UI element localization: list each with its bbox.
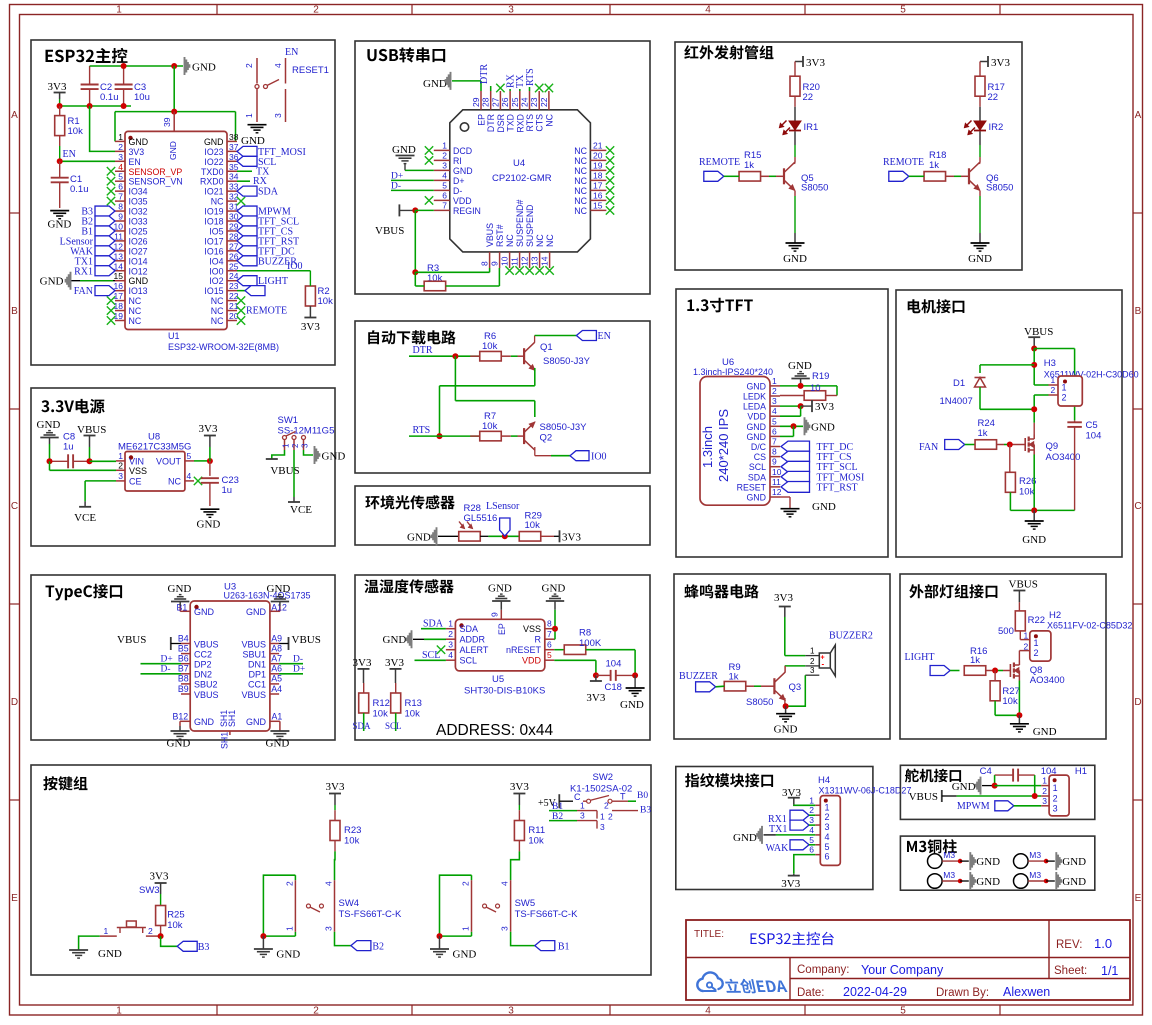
ic U5 SHT30	[455, 619, 545, 696]
svg-text:IR1: IR1	[804, 122, 819, 133]
svg-text:SW1: SW1	[278, 415, 299, 426]
resistor R23	[330, 810, 361, 875]
svg-text:VBUS: VBUS	[77, 424, 106, 436]
svg-text:2: 2	[810, 657, 815, 666]
svg-text:NC: NC	[574, 186, 587, 196]
svg-text:GND: GND	[98, 948, 122, 960]
svg-text:A: A	[11, 110, 18, 121]
svg-text:BUZZER: BUZZER	[679, 671, 718, 682]
net label DTR top	[479, 64, 491, 91]
power flag VBUS U3 right	[279, 634, 321, 650]
resistor R18	[924, 150, 969, 181]
svg-text:1: 1	[284, 926, 294, 931]
svg-text:VCE: VCE	[74, 512, 96, 524]
net flag LSensor	[486, 501, 520, 536]
svg-text:AO3400: AO3400	[1030, 675, 1065, 686]
svg-text:1/1: 1/1	[1101, 964, 1118, 978]
power flag 3V3 H4 top	[782, 787, 815, 805]
svg-text:SCL: SCL	[749, 462, 766, 472]
svg-text:VDD: VDD	[747, 412, 766, 422]
net label D+ left	[391, 172, 434, 182]
ground SW3	[69, 936, 122, 960]
power flag VBUS servo	[909, 790, 957, 803]
mounting hole M3 1	[928, 850, 1001, 870]
net flag TX1 pin13	[75, 256, 115, 267]
svg-text:10k: 10k	[167, 920, 183, 931]
gnd flag servo	[952, 777, 995, 795]
wire vbus node motor	[980, 346, 1075, 421]
svg-text:GND: GND	[40, 276, 64, 288]
capacitor C23	[201, 475, 239, 506]
svg-text:ME6217C33M5G: ME6217C33M5G	[118, 442, 191, 453]
svg-text:6: 6	[118, 182, 123, 192]
ground U3 top right	[267, 583, 291, 606]
section box M3铜柱	[900, 836, 1094, 890]
switch SW5	[440, 875, 579, 936]
title block texts	[694, 929, 1118, 999]
svg-text:240*240 IPS: 240*240 IPS	[716, 409, 731, 482]
svg-text:3V3: 3V3	[326, 781, 345, 793]
section box ESP32主控	[31, 40, 335, 365]
wire top gnd rail	[90, 63, 183, 69]
svg-text:IO18: IO18	[204, 217, 223, 227]
svg-text:10: 10	[772, 467, 782, 477]
net flag BUZZER	[679, 671, 724, 692]
resistor R9	[724, 662, 774, 691]
svg-text:1: 1	[1034, 638, 1039, 648]
net flag MPWM	[957, 801, 1041, 812]
svg-text:SDA: SDA	[460, 624, 479, 634]
resistor R13 pullup	[385, 657, 422, 731]
svg-text:104: 104	[1086, 431, 1102, 442]
section box 温湿度传感器	[355, 575, 650, 740]
svg-text:A1: A1	[272, 712, 283, 722]
svg-text:DCD: DCD	[453, 146, 472, 156]
svg-text:R11: R11	[528, 825, 545, 836]
svg-text:NC: NC	[574, 146, 587, 156]
svg-text:3: 3	[448, 640, 453, 650]
section box 3.3V电源	[31, 388, 335, 546]
ic U1 ESP32-WROOM-32E	[125, 131, 279, 352]
svg-text:23: 23	[229, 281, 239, 291]
net label TX top	[515, 74, 526, 91]
svg-text:1.3inch-IPS240*240: 1.3inch-IPS240*240	[693, 367, 773, 377]
switch SW1	[278, 415, 335, 450]
svg-text:GND: GND	[488, 583, 512, 595]
svg-text:SENSOR_VP: SENSOR_VP	[129, 167, 183, 177]
wire IO0 pin25	[237, 261, 310, 272]
section box 按键组	[31, 765, 651, 975]
svg-text:1: 1	[282, 443, 291, 448]
section box USB转串口	[355, 41, 650, 294]
section title 蜂鸣器电路	[684, 584, 758, 598]
power flag 3V3 U5	[586, 681, 605, 704]
svg-text:ADDRESS: 0x44: ADDRESS: 0x44	[436, 722, 554, 739]
svg-text:10k: 10k	[344, 836, 360, 847]
svg-text:NC: NC	[574, 196, 587, 206]
svg-text:B3: B3	[640, 806, 651, 816]
ground Q5	[783, 243, 807, 265]
svg-text:GND: GND	[246, 717, 267, 727]
svg-text:5: 5	[547, 650, 552, 660]
svg-text:D: D	[11, 697, 18, 708]
svg-text:22: 22	[539, 97, 549, 107]
power flag 3V3 IR1	[795, 56, 825, 69]
resistor R11	[511, 810, 546, 875]
svg-text:29: 29	[471, 97, 481, 107]
svg-text:D-: D-	[161, 664, 171, 674]
svg-text:Q1: Q1	[540, 342, 553, 353]
svg-text:2: 2	[1062, 393, 1067, 403]
power flag VBUS SW1	[266, 450, 300, 477]
ground U4 gnd pin3	[392, 144, 434, 170]
svg-text:ADDR: ADDR	[460, 635, 486, 645]
svg-text:22: 22	[988, 92, 999, 103]
svg-text:A: A	[1135, 110, 1142, 121]
svg-text:S8050: S8050	[746, 697, 773, 708]
wire VBUS to REGIN	[412, 207, 489, 275]
svg-text:SDA: SDA	[748, 472, 766, 482]
svg-text:BUZZER2: BUZZER2	[829, 631, 873, 642]
ground U3 bottom right	[266, 731, 290, 750]
svg-text:3V3: 3V3	[510, 781, 529, 793]
resistor R8	[554, 628, 635, 676]
svg-text:C: C	[11, 501, 18, 512]
svg-text:EP: EP	[497, 623, 507, 635]
svg-text:2: 2	[1042, 786, 1047, 796]
U4 top pins 22-29	[471, 91, 554, 133]
no-connect pin27	[496, 84, 504, 92]
svg-text:IO32: IO32	[129, 207, 148, 217]
power flag 3V3 U6	[812, 400, 834, 413]
svg-text:IO21: IO21	[204, 187, 223, 197]
mosfet Q8 AO3400	[1010, 651, 1064, 686]
svg-text:1u: 1u	[222, 485, 233, 496]
svg-text:D/C: D/C	[751, 442, 767, 452]
svg-text:2: 2	[313, 5, 319, 16]
ground Q6	[968, 243, 992, 265]
svg-text:S8050-J3Y: S8050-J3Y	[543, 356, 591, 367]
svg-text:26: 26	[500, 97, 510, 107]
svg-text:NC: NC	[211, 197, 224, 207]
svg-text:VBUS: VBUS	[1009, 579, 1038, 591]
svg-text:1N4007: 1N4007	[940, 396, 973, 407]
svg-text:1: 1	[461, 926, 471, 931]
resistor R24	[975, 418, 1025, 449]
svg-text:GND: GND	[197, 519, 221, 531]
svg-text:SHT30-DIS-B10KS: SHT30-DIS-B10KS	[464, 686, 545, 697]
capacitor C5	[1034, 420, 1101, 510]
svg-text:7: 7	[442, 200, 447, 210]
svg-text:C18: C18	[605, 682, 622, 693]
svg-text:Date:: Date:	[797, 987, 825, 999]
wire VOUT 3V3	[194, 458, 213, 476]
svg-text:SDA: SDA	[353, 721, 372, 731]
wire vin rail	[47, 458, 117, 470]
svg-text:TXD: TXD	[506, 114, 516, 132]
net flag FAN	[919, 440, 975, 454]
svg-text:IO35: IO35	[129, 197, 148, 207]
svg-text:15: 15	[593, 200, 603, 210]
svg-text:13: 13	[114, 251, 124, 261]
svg-text:NC: NC	[535, 234, 545, 247]
svg-text:GND: GND	[204, 137, 224, 147]
U3 pin A12	[246, 603, 287, 617]
resistor R22	[998, 602, 1045, 639]
svg-text:4: 4	[809, 825, 814, 835]
wire 3v3 rail	[57, 103, 131, 109]
svg-text:ALERT: ALERT	[460, 645, 489, 655]
svg-text:GND: GND	[733, 832, 757, 844]
svg-text:1: 1	[810, 647, 815, 656]
svg-text:SBU1: SBU1	[242, 649, 266, 659]
power flag VBUS motor	[1024, 326, 1053, 349]
svg-text:11: 11	[114, 231, 123, 241]
svg-text:ESP32-WROOM-32E(8MB): ESP32-WROOM-32E(8MB)	[168, 342, 279, 352]
section title 红外发射管组	[684, 45, 773, 59]
svg-text:GND: GND	[192, 62, 216, 74]
svg-text:TXD0: TXD0	[201, 167, 224, 177]
svg-text:DSR: DSR	[496, 114, 506, 133]
svg-text:3V3: 3V3	[586, 692, 605, 704]
svg-text:EN: EN	[129, 157, 141, 167]
svg-text:TX1: TX1	[769, 824, 787, 835]
U3 left pins	[178, 633, 219, 700]
svg-text:10k: 10k	[1002, 696, 1018, 707]
svg-text:SDA: SDA	[258, 187, 279, 198]
svg-text:IO19: IO19	[204, 207, 223, 217]
svg-text:4: 4	[324, 881, 334, 886]
svg-text:10: 10	[810, 383, 821, 394]
svg-text:1k: 1k	[729, 672, 739, 683]
net flag BUZZER pin26	[237, 256, 297, 267]
svg-text:RX: RX	[253, 176, 268, 187]
resistor R15	[739, 150, 784, 181]
buzzer BUZZER2	[805, 631, 873, 677]
svg-text:D: D	[1134, 697, 1141, 708]
svg-text:2: 2	[284, 881, 294, 886]
U3 right pins	[241, 633, 282, 700]
net flag LIGHT	[905, 652, 960, 676]
svg-text:18: 18	[593, 170, 603, 180]
svg-text:SCL: SCL	[422, 650, 440, 661]
svg-text:M3: M3	[943, 850, 955, 860]
svg-text:1: 1	[809, 795, 814, 805]
svg-text:1: 1	[1051, 375, 1056, 385]
net flag TFT_RST	[781, 482, 858, 494]
svg-text:R19: R19	[812, 371, 829, 382]
net label TX pin35	[237, 166, 270, 177]
net flag B3	[158, 933, 210, 953]
svg-text:0.1u: 0.1u	[100, 92, 119, 103]
svg-text:5: 5	[442, 180, 447, 190]
svg-text:2: 2	[461, 881, 471, 886]
net flag TFT_SCL pin30	[237, 216, 299, 228]
svg-text:6: 6	[772, 426, 777, 436]
svg-text:IO16: IO16	[204, 246, 223, 256]
section box TypeC接口	[31, 575, 335, 740]
svg-text:D+: D+	[453, 176, 465, 186]
net flag TFT_CS pin29	[237, 226, 293, 238]
U3 pin B12	[173, 712, 215, 732]
net flag TFT_DC pin27	[237, 246, 295, 258]
svg-text:2: 2	[608, 812, 613, 822]
svg-text:3V3: 3V3	[129, 147, 145, 157]
svg-text:4: 4	[273, 63, 283, 68]
svg-text:TS-FS66T-C-K: TS-FS66T-C-K	[339, 909, 402, 920]
svg-text:B5: B5	[178, 643, 189, 653]
svg-text:GND: GND	[976, 876, 1000, 888]
section title 环境光传感器	[365, 495, 454, 509]
svg-text:REV:: REV:	[1056, 939, 1082, 951]
svg-text:3: 3	[825, 822, 830, 832]
svg-text:4: 4	[187, 471, 192, 481]
capacitor C3	[115, 66, 150, 106]
svg-text:10u: 10u	[134, 92, 150, 103]
svg-text:A5: A5	[271, 674, 282, 684]
svg-text:1: 1	[442, 140, 447, 150]
svg-text:X1311WV-06J-C18D27: X1311WV-06J-C18D27	[819, 786, 912, 796]
wire buzzer pin3	[786, 675, 806, 706]
svg-text:GND: GND	[1062, 876, 1086, 888]
svg-text:NC: NC	[574, 156, 587, 166]
wire EN to pin3	[57, 158, 115, 164]
svg-text:38: 38	[229, 132, 239, 142]
svg-text:17: 17	[593, 180, 603, 190]
svg-text:3: 3	[772, 396, 777, 406]
svg-text:1: 1	[118, 132, 123, 142]
svg-text:B6: B6	[178, 654, 189, 664]
svg-text:SCL: SCL	[460, 656, 478, 666]
svg-text:DP2: DP2	[194, 660, 212, 670]
svg-text:GND: GND	[194, 607, 215, 617]
power flag 3V3 R11	[510, 781, 529, 810]
ground light	[1010, 724, 1057, 738]
svg-text:9: 9	[490, 261, 500, 266]
svg-text:DP1: DP1	[248, 670, 266, 680]
svg-text:LSensor: LSensor	[486, 501, 520, 512]
svg-text:RST#: RST#	[495, 224, 505, 247]
svg-text:5: 5	[187, 451, 192, 461]
svg-text:2022-04-29: 2022-04-29	[843, 985, 907, 999]
svg-text:GND: GND	[383, 634, 407, 646]
svg-text:VOUT: VOUT	[156, 456, 182, 466]
wire H3 pin2	[1031, 395, 1048, 423]
svg-text:IO23: IO23	[204, 147, 223, 157]
ground U3 bottom left	[167, 731, 191, 750]
mounting hole M3 3	[928, 870, 1001, 890]
section title 舵机接口	[905, 769, 961, 783]
svg-text:18: 18	[114, 301, 124, 311]
svg-text:10k: 10k	[525, 520, 541, 531]
svg-text:1k: 1k	[929, 160, 939, 171]
wire LSensor node	[480, 533, 519, 539]
svg-text:R22: R22	[1028, 615, 1045, 626]
U4 left pins 1-7	[434, 140, 481, 216]
svg-text:3: 3	[118, 471, 123, 481]
svg-text:3V3: 3V3	[562, 532, 581, 544]
section box 环境光传感器	[355, 486, 650, 545]
resistor R20	[790, 62, 820, 107]
svg-text:IO5: IO5	[209, 226, 223, 236]
svg-text:U5: U5	[492, 674, 504, 685]
connector H1	[1041, 766, 1087, 816]
section title TypeC接口	[46, 584, 123, 601]
resistor R19	[780, 371, 837, 400]
svg-text:E: E	[1135, 893, 1142, 904]
resistor R7	[470, 411, 524, 441]
net flag WAK pin12	[70, 246, 115, 258]
wire Q9 source gnd	[1031, 455, 1037, 522]
resistor R6	[470, 331, 524, 361]
svg-text:10k: 10k	[405, 709, 421, 720]
svg-text:D+: D+	[293, 664, 305, 674]
svg-text:CP2102-GMR: CP2102-GMR	[492, 173, 552, 184]
svg-text:8: 8	[772, 447, 777, 457]
svg-text:10k: 10k	[318, 296, 334, 307]
svg-text:3V3: 3V3	[199, 423, 218, 435]
svg-text:GND: GND	[812, 501, 836, 513]
photoresistor R28 GL5516	[459, 503, 498, 541]
svg-text:A8: A8	[271, 643, 282, 653]
svg-text:100K: 100K	[579, 638, 602, 649]
net label D- U3 left	[141, 664, 182, 674]
svg-text:VBUS: VBUS	[117, 634, 146, 646]
svg-text:25: 25	[229, 261, 239, 271]
gnd flag SW1	[304, 446, 346, 464]
svg-text:IO15: IO15	[204, 286, 223, 296]
svg-text:5: 5	[772, 416, 777, 426]
U5 top pin EP	[490, 610, 508, 635]
svg-text:VDD: VDD	[453, 196, 472, 206]
svg-text:H4: H4	[818, 775, 830, 786]
gnd flag U4 top	[423, 72, 481, 91]
svg-text:RTS: RTS	[413, 425, 431, 436]
svg-text:10k: 10k	[482, 341, 498, 352]
svg-text:H3: H3	[1044, 358, 1056, 369]
svg-text:-: -	[821, 660, 824, 669]
net flag RX1 pin14	[74, 266, 115, 278]
wire CE VCE	[85, 481, 116, 507]
svg-text:SH1: SH1	[220, 732, 230, 749]
gnd flag H4	[733, 826, 815, 844]
svg-text:VBUS: VBUS	[241, 639, 266, 649]
pin 39 GND	[162, 112, 174, 132]
connector H4	[809, 775, 911, 865]
svg-text:GND: GND	[267, 583, 291, 595]
svg-text:FAN: FAN	[74, 286, 93, 297]
ground U6 top	[788, 360, 812, 386]
svg-text:3V3: 3V3	[48, 81, 67, 93]
wire pin39 rail	[115, 66, 236, 141]
svg-text:IO17: IO17	[204, 236, 223, 246]
svg-text:2: 2	[118, 460, 123, 470]
svg-text:CE: CE	[129, 476, 142, 486]
svg-text:SDA: SDA	[423, 619, 444, 630]
svg-text:3V3: 3V3	[806, 57, 825, 69]
svg-text:6: 6	[442, 190, 447, 200]
svg-text:Company:: Company:	[797, 964, 849, 976]
ic U4 CP2102-GMR	[450, 110, 591, 252]
svg-text:EN: EN	[63, 149, 76, 160]
svg-text:1: 1	[600, 812, 605, 822]
svg-text:IO14: IO14	[129, 256, 148, 266]
svg-text:1k: 1k	[744, 160, 754, 171]
svg-text:U4: U4	[513, 158, 525, 169]
resistor R25	[156, 906, 185, 937]
svg-text:GND: GND	[246, 607, 267, 617]
svg-text:6: 6	[547, 640, 552, 650]
